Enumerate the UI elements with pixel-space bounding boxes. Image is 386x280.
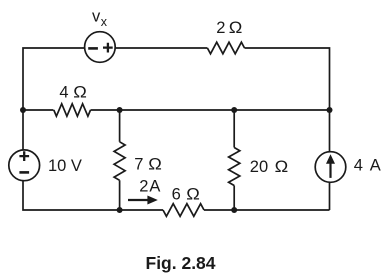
svg-text:x: x — [101, 15, 108, 29]
svg-text:4: 4 — [59, 83, 68, 101]
svg-text:10 V: 10 V — [48, 157, 82, 175]
svg-text:Ω: Ω — [186, 185, 200, 203]
svg-text:Ω: Ω — [275, 158, 289, 176]
svg-text:Ω: Ω — [229, 19, 243, 37]
svg-text:v: v — [92, 8, 101, 26]
svg-text:2: 2 — [139, 177, 148, 195]
svg-text:A: A — [149, 177, 160, 195]
svg-text:20: 20 — [250, 158, 268, 176]
svg-text:Ω: Ω — [148, 156, 162, 174]
svg-text:6: 6 — [172, 185, 181, 203]
svg-text:Ω: Ω — [73, 83, 87, 101]
svg-text:4: 4 — [354, 156, 363, 174]
svg-text:A: A — [370, 156, 381, 174]
svg-text:2: 2 — [216, 19, 225, 37]
svg-text:Fig. 2.84: Fig. 2.84 — [146, 253, 216, 273]
svg-text:7: 7 — [134, 156, 143, 174]
